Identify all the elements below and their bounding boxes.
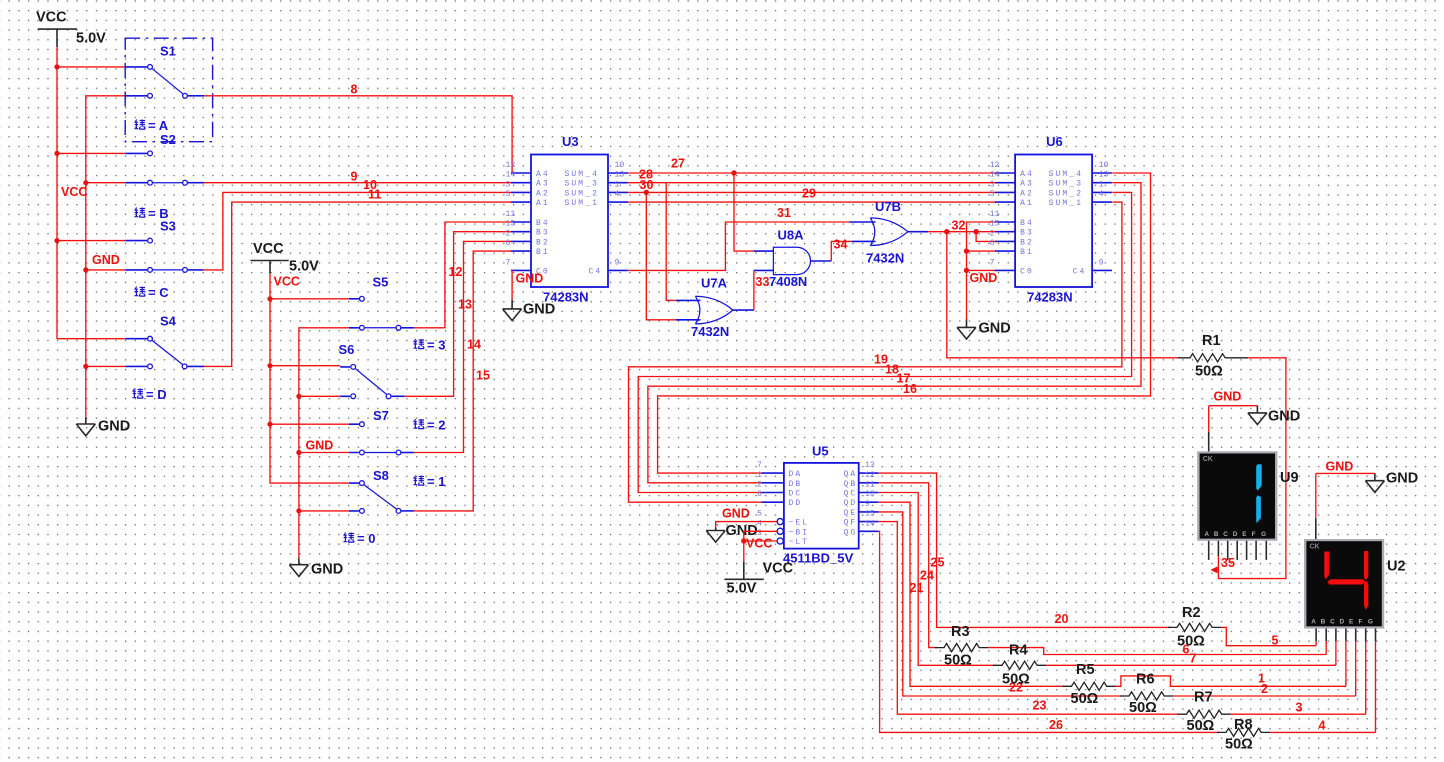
- svg-text:29: 29: [802, 187, 816, 201]
- svg-text:14: 14: [506, 171, 516, 180]
- svg-text:GND: GND: [1386, 471, 1418, 487]
- wire tap SUM3 to U7A input A: [666, 183, 676, 301]
- svg-text:23: 23: [1033, 699, 1047, 713]
- svg-text:74283N: 74283N: [1027, 290, 1073, 305]
- svg-text:2: 2: [1261, 682, 1268, 696]
- svg-text:R1: R1: [1202, 333, 1221, 349]
- svg-text:B2: B2: [536, 238, 550, 247]
- svg-text:S7: S7: [373, 408, 389, 423]
- junction dot on SUM4: [731, 170, 736, 175]
- svg-text:G: G: [1368, 619, 1373, 626]
- svg-text:11: 11: [865, 481, 875, 490]
- wire tap SUM4 to U8A input A: [734, 173, 754, 251]
- svg-text:QF: QF: [844, 519, 858, 528]
- svg-text:A: A: [1204, 531, 1209, 538]
- wire net QC to R4: [878, 493, 995, 666]
- wire tap SUM2 to U7A input B: [646, 192, 675, 319]
- ground symbol at U2.CK: [1365, 471, 1418, 493]
- wire net 35 (R1 to U9 segment B): [1218, 358, 1286, 579]
- svg-text:SUM_3: SUM_3: [565, 180, 600, 189]
- svg-text:13: 13: [615, 171, 625, 180]
- svg-text:7: 7: [506, 258, 511, 267]
- svg-text:CK: CK: [1310, 544, 1320, 551]
- ground symbol under U6: [957, 320, 1011, 340]
- svg-text:13: 13: [1099, 171, 1109, 180]
- svg-text:U3: U3: [562, 134, 579, 149]
- svg-text:50Ω: 50Ω: [1187, 718, 1215, 734]
- wire net 17 (U6.SUM3 to U5.DB): [648, 183, 1141, 483]
- svg-text:12: 12: [449, 265, 463, 279]
- svg-text:QG: QG: [844, 528, 858, 537]
- svg-text:C4: C4: [1073, 267, 1087, 276]
- wire net 3 (R7 to U2.F): [1231, 713, 1366, 715]
- svg-text:A2: A2: [1020, 189, 1034, 198]
- svg-text:~BI: ~BI: [789, 528, 810, 537]
- wire net 22 (U5.QD to R5): [878, 502, 1064, 686]
- svg-text:= 1: = 1: [427, 474, 445, 489]
- svg-text:DA: DA: [789, 470, 803, 479]
- svg-text:GND: GND: [722, 507, 750, 521]
- wire U5.~BI / ~LT to VCC: [744, 531, 777, 561]
- wire net 5 (R2 to U2.A): [1221, 627, 1316, 645]
- junction dot on SUM2: [644, 190, 649, 195]
- wire GND net at U6 (B4,B1,C0): [967, 222, 996, 320]
- svg-text:12: 12: [506, 161, 516, 170]
- wire net 31 (U3.C4 to U7B input A): [628, 222, 849, 270]
- svg-text:1: 1: [615, 180, 620, 189]
- svg-text:11: 11: [990, 210, 1000, 219]
- resistor R6 50ohm: [1120, 672, 1173, 717]
- svg-text:6: 6: [990, 239, 995, 248]
- svg-text:= 3: = 3: [427, 338, 445, 353]
- svg-text:9: 9: [865, 500, 870, 509]
- junction dot VCC net U5: [741, 538, 746, 543]
- svg-text:7: 7: [1190, 652, 1197, 666]
- svg-text:C0: C0: [1020, 267, 1034, 276]
- svg-text:34: 34: [834, 238, 848, 252]
- wire GND rail 1: [86, 96, 126, 418]
- svg-text:4: 4: [1319, 719, 1326, 733]
- svg-text:U9: U9: [1280, 470, 1299, 486]
- svg-text:GND: GND: [1214, 390, 1242, 404]
- svg-text:R4: R4: [1009, 643, 1028, 659]
- svg-text:16: 16: [903, 382, 917, 396]
- svg-text:12: 12: [990, 161, 1000, 170]
- svg-text:C: C: [1223, 531, 1228, 538]
- svg-text:QC: QC: [844, 490, 858, 499]
- svg-text:50Ω: 50Ω: [1195, 364, 1223, 380]
- pins U2 A-G: [1316, 629, 1375, 733]
- svg-text:U5: U5: [812, 444, 829, 459]
- svg-text:B: B: [1214, 531, 1219, 538]
- wire net 23 (U5.QF to R7): [878, 522, 1179, 715]
- svg-text:QE: QE: [844, 509, 858, 518]
- svg-text:D: D: [1233, 531, 1238, 538]
- svg-text:~LT: ~LT: [789, 538, 810, 547]
- svg-text:14: 14: [865, 519, 875, 528]
- svg-text:1: 1: [757, 471, 762, 480]
- svg-text:SUM_4: SUM_4: [565, 170, 600, 179]
- svg-text:R8: R8: [1234, 717, 1253, 733]
- wire net 28 (U3.SUM3 to U6.A3): [628, 182, 996, 184]
- junction GND rail dots: [83, 180, 88, 369]
- svg-text:SUM_3: SUM_3: [1049, 180, 1084, 189]
- switch S1: [125, 38, 212, 142]
- junction dots GND net U6: [964, 248, 969, 273]
- junction VCC rail 2 dots: [267, 296, 272, 427]
- wire VCC rail 1: [57, 47, 125, 339]
- wire VCC branch to S2: [57, 152, 125, 154]
- svg-text:7: 7: [757, 461, 762, 470]
- wire net 2 (R6 to U2.E): [1173, 695, 1356, 697]
- svg-text:B1: B1: [536, 248, 550, 257]
- wire VCC branch to S5: [270, 298, 349, 300]
- switch S4: [125, 314, 204, 369]
- junction GND rail 2 dots: [296, 394, 301, 514]
- svg-text:~EL: ~EL: [789, 519, 810, 528]
- svg-text:DC: DC: [789, 490, 803, 499]
- svg-text:C: C: [1330, 619, 1335, 626]
- svg-text:2: 2: [757, 481, 762, 490]
- svg-text:5: 5: [990, 190, 995, 199]
- wire net 33 (U7A out to U8A input B): [753, 270, 755, 310]
- wire net QB to R3: [878, 483, 937, 648]
- svg-text:S2: S2: [160, 132, 176, 147]
- power VCC symbol top-left: [36, 10, 106, 48]
- resistor R8 50ohm: [1217, 717, 1270, 753]
- svg-text:S6: S6: [339, 342, 355, 357]
- power VCC symbol below U5 (inverted): [724, 561, 793, 597]
- wire arrow terminal net 35: [1211, 566, 1218, 573]
- svg-text:VCC: VCC: [763, 561, 794, 577]
- svg-text:50Ω: 50Ω: [1071, 691, 1099, 707]
- svg-text:15: 15: [865, 510, 875, 519]
- svg-text:4511BD_5V: 4511BD_5V: [783, 551, 853, 566]
- wire U5.~EL to ground: [716, 522, 777, 528]
- svg-text:4: 4: [757, 519, 762, 528]
- display U2 seven-segment (shows 4): [1304, 539, 1384, 629]
- wire net 32 down to R1: [947, 232, 1178, 358]
- wire U9 pin B to net 35: [1217, 556, 1219, 560]
- wire GND branch to S2: [86, 182, 126, 184]
- label key = D: [132, 387, 166, 402]
- svg-text:7408N: 7408N: [769, 274, 807, 289]
- svg-text:S1: S1: [160, 44, 176, 59]
- svg-text:GND: GND: [523, 302, 555, 318]
- wire net QE to R6: [878, 512, 1121, 696]
- ground symbol under S4: [76, 418, 130, 436]
- svg-text:25: 25: [931, 556, 945, 570]
- svg-text:A1: A1: [536, 199, 550, 208]
- svg-text:50Ω: 50Ω: [944, 653, 972, 669]
- svg-text:GND: GND: [1268, 409, 1300, 425]
- label key = B: [134, 206, 168, 221]
- svg-text:8: 8: [351, 83, 358, 97]
- wire net 4 (R8 to U2.G): [1270, 731, 1376, 733]
- svg-text:GND: GND: [970, 271, 998, 285]
- svg-text:G: G: [1261, 531, 1266, 538]
- label key = 0: [343, 531, 375, 546]
- svg-text:21: 21: [910, 581, 924, 595]
- svg-text:4: 4: [1099, 190, 1104, 199]
- svg-text:B3: B3: [536, 229, 550, 238]
- svg-text:31: 31: [777, 206, 791, 220]
- svg-text:7: 7: [990, 258, 995, 267]
- svg-text:VCC: VCC: [746, 537, 772, 551]
- label key = A: [134, 118, 168, 133]
- svg-text:GND: GND: [92, 253, 120, 267]
- power VCC symbol middle: [251, 241, 320, 275]
- svg-text:10: 10: [865, 490, 875, 499]
- svg-text:VCC: VCC: [253, 241, 284, 257]
- resistor R7 50ohm: [1178, 690, 1231, 735]
- svg-text:E: E: [1349, 619, 1354, 626]
- resistor R3 50ohm: [935, 624, 988, 669]
- svg-text:S5: S5: [373, 275, 389, 290]
- ground symbol under S8: [289, 558, 343, 577]
- ground symbol at U9.CK: [1248, 406, 1300, 425]
- wire net 13 (S6 to U3.B3): [405, 232, 511, 397]
- wire net 16 (U6.SUM4 to U5.DA): [658, 173, 1151, 473]
- svg-text:6: 6: [506, 239, 511, 248]
- svg-text:QB: QB: [844, 480, 858, 489]
- wire net 9 (S2 to U3.A3): [204, 182, 511, 184]
- wire GND branch to S3: [86, 269, 126, 271]
- svg-text:QA: QA: [844, 470, 858, 479]
- svg-text:10: 10: [1099, 161, 1109, 170]
- wire U2.CK to ground: [1316, 473, 1375, 518]
- wire net 14 (S7 to U3.B2): [414, 241, 511, 452]
- label key = C: [134, 285, 169, 300]
- svg-text:U8A: U8A: [778, 228, 805, 243]
- svg-text:QD: QD: [844, 499, 858, 508]
- svg-text:5: 5: [506, 190, 511, 199]
- wire net 12 (S5 to U3.B4): [414, 222, 511, 328]
- svg-text:33: 33: [756, 275, 770, 289]
- svg-text:A2: A2: [536, 189, 550, 198]
- svg-text:GND: GND: [98, 419, 130, 435]
- wire VCC branch to S1: [57, 66, 125, 68]
- ground symbol under U3: [503, 300, 556, 321]
- svg-text:6: 6: [757, 490, 762, 499]
- svg-text:U2: U2: [1387, 559, 1406, 575]
- svg-text:10: 10: [615, 161, 625, 170]
- svg-text:5: 5: [1272, 634, 1279, 648]
- wire net 6 (R3 to U2.B): [988, 648, 1326, 655]
- svg-text:5.0V: 5.0V: [727, 581, 757, 597]
- svg-text:B1: B1: [1020, 248, 1034, 257]
- svg-text:U7A: U7A: [701, 276, 728, 291]
- svg-text:9: 9: [1099, 258, 1104, 267]
- svg-text:SUM_2: SUM_2: [1049, 189, 1084, 198]
- IC U3 74283N 4-bit adder: [506, 134, 628, 305]
- IC U6 74283N 4-bit adder: [990, 134, 1112, 305]
- svg-text:F: F: [1252, 531, 1256, 538]
- label key = 2: [413, 418, 445, 433]
- svg-text:B2: B2: [1020, 238, 1034, 247]
- svg-text:S4: S4: [160, 314, 177, 329]
- switch S8: [349, 468, 414, 513]
- wire net 1 (R5 to U2.D over R6): [1116, 676, 1346, 686]
- wire net 8 (S1 to U3.A4): [204, 96, 512, 173]
- svg-text:A4: A4: [1020, 170, 1034, 179]
- label key = 1: [413, 474, 445, 489]
- svg-text:13: 13: [458, 298, 472, 312]
- svg-text:= D: = D: [146, 387, 167, 402]
- svg-text:GND: GND: [311, 562, 343, 578]
- svg-text:= C: = C: [148, 285, 169, 300]
- svg-text:SUM_1: SUM_1: [565, 199, 600, 208]
- switch S3: [125, 219, 203, 273]
- svg-text:3: 3: [1296, 701, 1303, 715]
- svg-text:11: 11: [506, 210, 516, 219]
- svg-text:9: 9: [351, 170, 358, 184]
- svg-text:9: 9: [615, 258, 620, 267]
- wire net 7 (R4 to U2.C): [1046, 664, 1336, 666]
- svg-text:C4: C4: [589, 267, 603, 276]
- switch S5: [349, 275, 414, 331]
- svg-text:E: E: [1242, 531, 1247, 538]
- wire VCC rail 2: [270, 274, 349, 483]
- svg-text:B4: B4: [1020, 219, 1034, 228]
- wire net 26 (U5.QG to R8): [878, 531, 1219, 732]
- wire net 27 (U3.SUM4 to U6.A4): [628, 172, 996, 174]
- svg-text:7432N: 7432N: [866, 251, 904, 266]
- svg-text:B3: B3: [1020, 229, 1034, 238]
- pins U9 A-G: [1209, 541, 1267, 560]
- svg-text:32: 32: [952, 219, 966, 233]
- svg-text:GND: GND: [979, 321, 1011, 337]
- svg-text:R3: R3: [951, 624, 970, 640]
- wire GND rail 2: [299, 328, 349, 559]
- svg-text:50Ω: 50Ω: [1129, 700, 1157, 716]
- svg-text:5: 5: [757, 510, 762, 519]
- svg-text:26: 26: [1049, 718, 1063, 732]
- op gate U7B 7432N OR: [849, 199, 928, 266]
- wire U9.CK to ground: [1209, 406, 1258, 432]
- svg-text:B: B: [1321, 619, 1326, 626]
- svg-text:GND: GND: [1326, 460, 1354, 474]
- svg-text:D: D: [1340, 619, 1345, 626]
- svg-text:CK: CK: [1203, 456, 1213, 463]
- IC U5 4511BD_5V decoder: [757, 444, 878, 566]
- wire net 15 (S8 to U3.B1): [414, 251, 511, 511]
- svg-text:2: 2: [990, 229, 995, 238]
- svg-text:50Ω: 50Ω: [1177, 634, 1205, 650]
- display U9 seven-segment (shows 1): [1197, 451, 1277, 541]
- svg-text:A3: A3: [1020, 180, 1034, 189]
- svg-text:= 2: = 2: [427, 418, 445, 433]
- svg-text:1: 1: [1099, 180, 1104, 189]
- svg-text:VCC: VCC: [274, 275, 300, 289]
- switch S6: [339, 342, 405, 399]
- svg-text:U6: U6: [1046, 134, 1063, 149]
- wire U3.SUM1 to U6.A1: [628, 201, 996, 203]
- svg-text:R7: R7: [1194, 690, 1213, 706]
- ground symbol at U5.~EL: [706, 523, 758, 542]
- svg-text:3: 3: [990, 180, 995, 189]
- wire net 19 (U6.SUM1 to U5.DD): [629, 202, 1122, 502]
- svg-text:VCC: VCC: [36, 10, 67, 26]
- resistor R2 50ohm: [1168, 605, 1221, 650]
- svg-text:R6: R6: [1136, 672, 1155, 688]
- svg-text:50Ω: 50Ω: [1002, 672, 1030, 688]
- svg-text:DD: DD: [789, 499, 803, 508]
- svg-text:15: 15: [990, 220, 1000, 229]
- resistor R1 50ohm: [1178, 333, 1248, 380]
- svg-text:6: 6: [1183, 643, 1190, 657]
- svg-text:11: 11: [368, 188, 381, 202]
- svg-text:14: 14: [467, 338, 481, 352]
- svg-text:3: 3: [506, 180, 511, 189]
- svg-text:= 0: = 0: [357, 531, 375, 546]
- svg-text:SUM_1: SUM_1: [1049, 199, 1084, 208]
- op gate U8A 7408N AND: [754, 228, 831, 290]
- svg-text:13: 13: [865, 461, 875, 470]
- wire VCC branch to S7: [270, 423, 349, 425]
- svg-text:SUM_2: SUM_2: [565, 189, 600, 198]
- wire VCC branch to S3: [57, 240, 125, 242]
- svg-text:12: 12: [865, 471, 875, 480]
- svg-text:F: F: [1358, 619, 1362, 626]
- svg-text:R2: R2: [1182, 605, 1201, 621]
- wire net 32 jog to U6.B2: [976, 232, 996, 242]
- op gate U7A 7432N OR: [676, 276, 754, 340]
- junction dots net 32: [944, 229, 979, 234]
- wire net 32 (U7B out to U6.B3/B2 and R1): [928, 231, 996, 233]
- svg-text:27: 27: [671, 157, 685, 171]
- wire VCC branch to S6: [270, 365, 340, 367]
- wire U3.C0 to ground: [511, 270, 513, 299]
- svg-text:A3: A3: [536, 180, 550, 189]
- svg-text:= A: = A: [148, 118, 169, 133]
- svg-text:DB: DB: [789, 480, 803, 489]
- svg-text:7432N: 7432N: [691, 324, 729, 339]
- switch S7: [349, 408, 414, 455]
- wire net 10 (S3 to U3.A2): [203, 192, 511, 270]
- wire net 29 (U3.SUM2 to U6.A2): [628, 191, 996, 193]
- svg-text:U7B: U7B: [875, 199, 901, 214]
- wire GND branch to S7: [299, 452, 349, 454]
- svg-text:15: 15: [476, 369, 490, 383]
- junction VCC rail dots: [54, 64, 59, 243]
- svg-text:VCC: VCC: [61, 185, 87, 199]
- wire net 18 (U6.SUM2 to U5.DC): [638, 192, 1131, 492]
- svg-text:GND: GND: [306, 439, 334, 453]
- svg-text:A4: A4: [536, 170, 550, 179]
- svg-text:50Ω: 50Ω: [1225, 737, 1253, 753]
- svg-text:5.0V: 5.0V: [289, 259, 319, 275]
- label key = 3: [413, 338, 445, 353]
- svg-text:B4: B4: [536, 219, 550, 228]
- wire GND branch to S4: [86, 365, 126, 367]
- svg-text:A1: A1: [1020, 199, 1034, 208]
- svg-text:20: 20: [1055, 612, 1069, 626]
- svg-text:2: 2: [506, 229, 511, 238]
- svg-text:S3: S3: [160, 219, 176, 234]
- switch S2: [125, 132, 204, 185]
- svg-text:5.0V: 5.0V: [76, 31, 106, 47]
- wire GND branch to S6: [299, 395, 340, 397]
- wire net 20 (U5.QA to R2): [878, 473, 1171, 627]
- wire net 34 (U8A out to U7B input B): [831, 241, 851, 261]
- svg-text:4: 4: [615, 190, 620, 199]
- svg-text:A: A: [1311, 619, 1316, 626]
- svg-text:S8: S8: [373, 468, 389, 483]
- svg-text:GND: GND: [516, 272, 544, 286]
- svg-text:14: 14: [990, 171, 1000, 180]
- svg-text:15: 15: [506, 220, 516, 229]
